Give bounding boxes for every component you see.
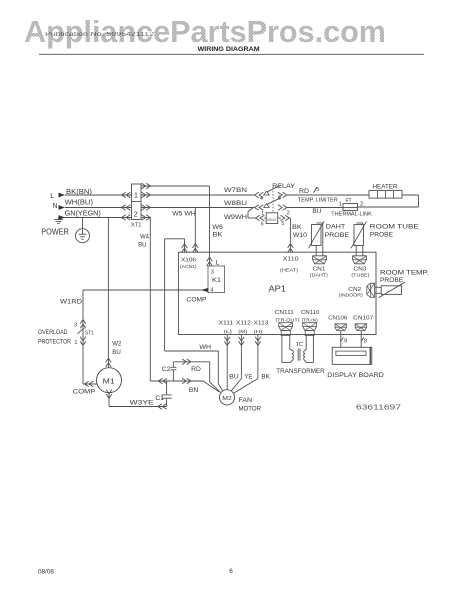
svg-text:W7BN: W7BN xyxy=(224,187,248,194)
svg-text:X112: X112 xyxy=(236,320,251,326)
svg-text:MOTOR: MOTOR xyxy=(239,405,262,412)
svg-text:BK: BK xyxy=(292,224,302,231)
svg-text:HEATER: HEATER xyxy=(373,184,398,191)
svg-text:BN: BN xyxy=(189,387,199,394)
svg-text:COMP: COMP xyxy=(187,296,207,303)
svg-text:TEMP. LIMITER: TEMP. LIMITER xyxy=(298,197,338,203)
svg-text:W5 WH: W5 WH xyxy=(172,210,196,217)
svg-text:PROBE: PROBE xyxy=(380,277,404,284)
svg-text:CN106: CN106 xyxy=(328,315,347,321)
svg-text:CN110: CN110 xyxy=(301,310,320,316)
svg-text:M2: M2 xyxy=(222,396,232,402)
svg-text:M1: M1 xyxy=(103,376,115,385)
svg-text:63611697: 63611697 xyxy=(356,402,401,411)
svg-text:W8BU: W8BU xyxy=(224,200,248,207)
svg-text:GN(YEGN): GN(YEGN) xyxy=(65,211,101,218)
svg-text:X111: X111 xyxy=(219,320,234,326)
svg-text:THERMAL-LINK: THERMAL-LINK xyxy=(331,211,372,217)
svg-text:1: 1 xyxy=(339,202,342,208)
svg-text:6: 6 xyxy=(229,568,233,575)
svg-text:(HEAT): (HEAT) xyxy=(280,268,298,274)
svg-text:W6: W6 xyxy=(212,224,223,231)
svg-text:WH: WH xyxy=(199,344,211,351)
svg-text:2: 2 xyxy=(360,202,363,208)
svg-text:RD: RD xyxy=(191,366,201,373)
svg-text:ROOM TUBE: ROOM TUBE xyxy=(370,224,420,231)
svg-text:PROBE: PROBE xyxy=(325,232,350,239)
svg-text:X113: X113 xyxy=(254,320,269,326)
svg-text:2: 2 xyxy=(134,211,138,218)
svg-text:CN2: CN2 xyxy=(348,287,361,293)
svg-text:5: 5 xyxy=(316,187,319,193)
svg-text:XT1: XT1 xyxy=(131,223,142,229)
svg-text:(ACN1): (ACN1) xyxy=(180,264,197,270)
svg-text:BK(BN): BK(BN) xyxy=(66,189,92,196)
svg-text:CN107: CN107 xyxy=(353,315,373,321)
svg-text:C1: C1 xyxy=(155,395,164,402)
svg-text:(TR-IN): (TR-IN) xyxy=(302,318,318,324)
svg-text:DAHT: DAHT xyxy=(326,224,345,231)
svg-text:KM2: KM2 xyxy=(267,217,277,222)
svg-text:W4: W4 xyxy=(140,234,149,241)
svg-text:COMP: COMP xyxy=(73,389,95,396)
svg-text:PROBE: PROBE xyxy=(370,231,394,238)
svg-text:2: 2 xyxy=(287,210,290,216)
svg-text:DISPLAY BOARD: DISPLAY BOARD xyxy=(327,372,384,379)
svg-text:BU: BU xyxy=(138,241,147,248)
svg-text:W1RD: W1RD xyxy=(60,298,82,305)
svg-text:TC: TC xyxy=(296,342,304,348)
svg-text:W10: W10 xyxy=(293,232,308,239)
svg-text:OVERLOAD: OVERLOAD xyxy=(38,329,68,336)
svg-text:PROTECTOR: PROTECTOR xyxy=(38,338,72,345)
svg-text:1: 1 xyxy=(134,192,138,199)
svg-text:5: 5 xyxy=(281,221,284,227)
svg-text:(L): (L) xyxy=(224,329,233,335)
svg-text:(TR-OUT): (TR-OUT) xyxy=(276,318,300,324)
svg-text:WIRING DIAGRAM: WIRING DIAGRAM xyxy=(198,46,260,53)
svg-text:3: 3 xyxy=(278,195,281,201)
svg-text:X110: X110 xyxy=(283,256,299,262)
svg-text:L: L xyxy=(216,260,220,267)
svg-text:CN3: CN3 xyxy=(353,267,366,273)
svg-text:BU: BU xyxy=(229,373,239,380)
svg-text:BU: BU xyxy=(312,208,321,215)
svg-text:ST1: ST1 xyxy=(85,330,94,336)
svg-text:L: L xyxy=(50,193,54,200)
svg-text:W2: W2 xyxy=(112,340,121,347)
svg-text:W3YE: W3YE xyxy=(130,399,154,406)
svg-text:6: 6 xyxy=(261,222,264,228)
svg-text:1: 1 xyxy=(261,211,264,217)
svg-text:TRANSFORMER: TRANSFORMER xyxy=(276,368,325,375)
svg-text:YE: YE xyxy=(244,373,252,380)
svg-text:CN1: CN1 xyxy=(313,267,326,273)
svg-text:C2: C2 xyxy=(162,366,171,373)
svg-text:(DAHT): (DAHT) xyxy=(310,272,328,278)
svg-text:X106: X106 xyxy=(181,258,196,264)
svg-text:4: 4 xyxy=(210,288,213,294)
svg-text:(H): (H) xyxy=(254,329,263,335)
svg-text:FT: FT xyxy=(346,198,353,204)
svg-text:(INDOOR): (INDOOR) xyxy=(339,293,363,299)
svg-text:3: 3 xyxy=(74,322,77,328)
svg-text:WH(BU): WH(BU) xyxy=(65,200,93,207)
svg-text:Publication No. 5995421112: Publication No. 5995421112 xyxy=(45,32,155,38)
svg-text:(M): (M) xyxy=(238,329,247,335)
svg-text:9: 9 xyxy=(344,338,347,344)
svg-text:(TUBE): (TUBE) xyxy=(351,272,369,278)
svg-text:N: N xyxy=(52,203,57,210)
svg-text:ROOM TEMP.: ROOM TEMP. xyxy=(380,270,429,277)
svg-text:W9WH: W9WH xyxy=(224,214,247,221)
svg-text:RD: RD xyxy=(299,188,309,195)
svg-text:AP1: AP1 xyxy=(269,285,287,294)
svg-text:RELAY: RELAY xyxy=(272,183,295,190)
svg-text:1: 1 xyxy=(74,340,77,346)
svg-text:CN111: CN111 xyxy=(275,310,294,316)
svg-text:8: 8 xyxy=(364,339,367,345)
svg-text:BK: BK xyxy=(212,231,223,238)
svg-text:08/08: 08/08 xyxy=(38,568,54,575)
svg-text:FAN: FAN xyxy=(239,397,253,404)
svg-text:K1: K1 xyxy=(212,277,222,284)
svg-text:BU: BU xyxy=(112,349,121,356)
svg-text:POWER: POWER xyxy=(41,226,69,236)
svg-text:BK: BK xyxy=(261,373,270,380)
svg-text:3: 3 xyxy=(211,269,214,275)
